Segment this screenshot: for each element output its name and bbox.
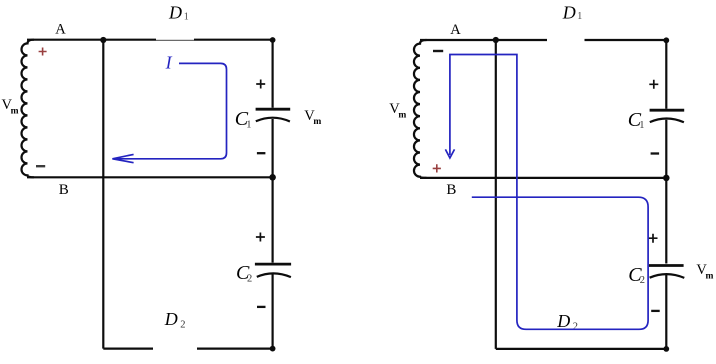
polarity + (C2): [256, 233, 265, 242]
polarity - (C2 right): [651, 310, 660, 312]
polarity - (gray, winding bottom): [36, 165, 45, 167]
svg-text:m: m: [313, 117, 321, 127]
svg-text:m: m: [11, 107, 19, 117]
wire: right rail C1 to B-junction to C2: [272, 119, 274, 263]
capacitor C1 top plate: [256, 108, 291, 111]
svg-text:2: 2: [247, 274, 252, 285]
svg-text:D: D: [562, 3, 576, 23]
inductor winding (transformer secondary, left circuit): [22, 40, 35, 178]
label Vm (left winding value): [2, 97, 19, 117]
junction node at C1/C2 midpoint (B rail): [269, 174, 276, 181]
wire: node B horizontal rail (right circuit): [420, 177, 666, 179]
polarity - (C1): [257, 152, 266, 154]
node: top right corner dot: [270, 37, 276, 43]
svg-text:2: 2: [180, 319, 185, 330]
capacitor C1 curved plate: [256, 118, 290, 122]
capacitor C2 top plate (right circuit): [649, 264, 684, 267]
wire: top rail left segment (A to D1): [27, 39, 156, 41]
current arrowhead (pointing left): [112, 154, 133, 162]
label D2 (right): [556, 311, 578, 332]
diode D1 (faint erased body segment): [156, 39, 194, 41]
polarity - (C2): [257, 306, 266, 308]
current loop (blue path, right circuit): [450, 55, 648, 330]
wire: right rail below C2: [272, 273, 274, 349]
wire: right rail above C1: [272, 40, 274, 108]
wire: vertical branch from node A down to D2 row: [102, 40, 104, 349]
junction node at B rail (right circuit): [663, 175, 670, 182]
svg-text:D: D: [168, 3, 182, 23]
label D1 (right): [562, 3, 583, 23]
current arrowhead (pointing down, right circuit): [445, 149, 454, 158]
svg-text:A: A: [55, 22, 66, 38]
junction node A (right): [493, 37, 499, 43]
svg-text:B: B: [59, 182, 69, 198]
node: bottom right corner dot: [270, 346, 276, 352]
wire: bottom rail right segment (D2 to right rail): [197, 348, 273, 350]
svg-text:D: D: [556, 311, 570, 331]
svg-text:A: A: [450, 22, 461, 38]
capacitor C2 top plate: [255, 263, 291, 266]
node: top right corner dot (right circuit): [663, 37, 669, 43]
label C2: [236, 262, 252, 285]
polarity + (C1): [256, 80, 265, 89]
label Vm (across C1): [304, 108, 321, 127]
wire: bottom rail (right circuit, continuous): [496, 348, 667, 350]
svg-text:1: 1: [184, 11, 189, 22]
svg-text:I: I: [165, 52, 173, 72]
label Vm (right winding value): [389, 101, 406, 121]
svg-text:m: m: [706, 271, 714, 281]
current loop I (blue path, left circuit): [115, 63, 227, 158]
polarity + (red, winding bottom, right circuit): [433, 164, 441, 172]
svg-text:D: D: [164, 309, 178, 329]
svg-text:1: 1: [246, 120, 251, 131]
wire: vertical branch from node A down to bottom rail (right): [495, 40, 497, 349]
capacitor C2 curved plate (right circuit): [650, 274, 685, 278]
svg-text:m: m: [398, 111, 406, 121]
svg-text:B: B: [446, 182, 456, 198]
junction node A: [100, 37, 106, 43]
inductor winding (transformer secondary, right circuit): [414, 40, 427, 178]
polarity + (C1 right): [649, 80, 658, 89]
wire: right rail below C2 (right circuit): [665, 274, 667, 349]
svg-text:1: 1: [577, 11, 582, 22]
label C2 (right): [628, 264, 645, 286]
svg-text:1: 1: [639, 120, 644, 131]
wire: right rail above C1 (right circuit): [665, 40, 667, 109]
capacitor C2 curved plate: [257, 273, 291, 277]
polarity + (C2 right): [649, 234, 658, 243]
polarity - (winding top, right circuit): [433, 50, 443, 52]
svg-text:2: 2: [573, 321, 578, 332]
svg-text:2: 2: [640, 275, 645, 286]
label D2: [164, 309, 186, 330]
label Vm (across C2, right circuit): [696, 262, 713, 282]
wire: node B horizontal rail: [27, 176, 273, 178]
wire: top rail left segment (A to D1, right circuit): [420, 39, 547, 41]
polarity - (C1 right): [651, 152, 660, 154]
wire: right rail C1 to junction to C2 (right circuit): [665, 120, 667, 264]
wire: top rail right segment (D1 to C1 rail): [194, 39, 273, 41]
wire: top rail right segment (D1 to C1 rail, right circuit): [585, 39, 667, 41]
capacitor C1 curved plate (right circuit): [650, 118, 684, 122]
node: bottom right corner dot (right circuit): [663, 346, 669, 352]
label D1: [168, 3, 189, 23]
polarity + (red, winding top): [39, 48, 47, 56]
label C1 (right): [628, 109, 645, 131]
capacitor C1 top plate (right circuit): [650, 109, 685, 112]
wire: bottom rail left segment (to D2): [103, 348, 153, 350]
label C1: [235, 108, 252, 130]
